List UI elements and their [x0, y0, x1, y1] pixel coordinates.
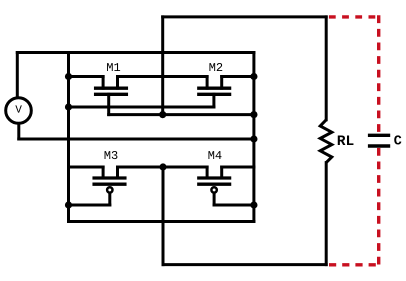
wire gate of M3	[69, 204, 110, 207]
transistor M4	[199, 167, 230, 205]
wire right bus vertical	[252, 53, 255, 222]
wire B from V+ top	[17, 51, 254, 54]
capacitor C bottom plate	[368, 144, 390, 147]
transistor M2	[199, 77, 230, 108]
label RL	[338, 135, 354, 145]
bubble of M4	[211, 187, 216, 192]
bubble of M3	[107, 187, 112, 192]
voltage source V	[6, 98, 32, 124]
node left bus / M1 source rail	[65, 73, 72, 80]
node left bus / gate wire P	[65, 103, 72, 110]
wire V+ vertical to source circle	[16, 53, 19, 98]
wire gate of M4	[214, 204, 254, 207]
node right bus / V- wire	[250, 135, 257, 142]
transistor M1	[96, 77, 127, 115]
wire RL bottom lead	[325, 163, 328, 265]
red dashed wire bottom	[329, 263, 380, 266]
node left bus / M3 gate wire	[65, 201, 72, 208]
wire RL top lead	[325, 17, 328, 120]
red dashed wire right upper	[377, 15, 380, 133]
wire top rail	[163, 15, 327, 18]
wire P gate of M2	[69, 106, 214, 109]
wire left bus vertical	[67, 53, 70, 222]
wire rail M4 to right bus	[222, 166, 254, 169]
red dashed wire right lower	[377, 148, 380, 265]
label M3	[105, 151, 118, 159]
wire rail to M1	[69, 75, 104, 78]
wire rail to M3	[69, 166, 104, 169]
resistor RL zigzag	[320, 120, 332, 163]
node right bus / M2 drain rail	[250, 73, 257, 80]
label V	[15, 105, 21, 112]
wire vertical from top rail to node on gate wire Q	[161, 17, 164, 115]
wire bottom rail	[163, 263, 326, 266]
node right bus / gate wire Q	[250, 111, 257, 118]
wire center vertical to bottom	[162, 167, 165, 265]
wire V- vertical below source	[17, 123, 20, 139]
node right bus / M4 gate wire	[250, 201, 257, 208]
wire rail M2 to right bus	[222, 75, 254, 78]
label M4	[208, 151, 221, 159]
wire V- horizontal	[19, 138, 254, 141]
label M2	[209, 63, 222, 71]
red dashed wire top	[329, 15, 380, 18]
wire rail M1 to M2	[118, 75, 208, 78]
node top vertical / gate wire Q	[159, 111, 166, 118]
wire lower row bottom	[69, 220, 254, 223]
label M1	[107, 63, 120, 71]
node lower rail / center vertical	[159, 163, 166, 170]
capacitor C top plate	[368, 134, 390, 137]
transistor M3	[94, 167, 125, 205]
label C	[394, 135, 401, 144]
wire rail M3 to M4	[118, 166, 208, 169]
wire Q gate of M1	[109, 113, 254, 116]
